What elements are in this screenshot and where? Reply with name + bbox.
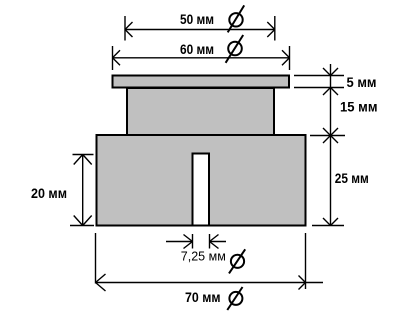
svg-text:5 мм: 5 мм [347,74,377,90]
svg-text:60 мм: 60 мм [180,41,214,57]
svg-text:50 мм: 50 мм [180,11,214,27]
svg-text:15 мм: 15 мм [340,99,378,115]
svg-text:7,25 мм: 7,25 мм [181,249,226,264]
svg-text:70 мм: 70 мм [185,289,221,305]
svg-text:25 мм: 25 мм [335,170,369,186]
svg-text:20 мм: 20 мм [31,185,67,201]
